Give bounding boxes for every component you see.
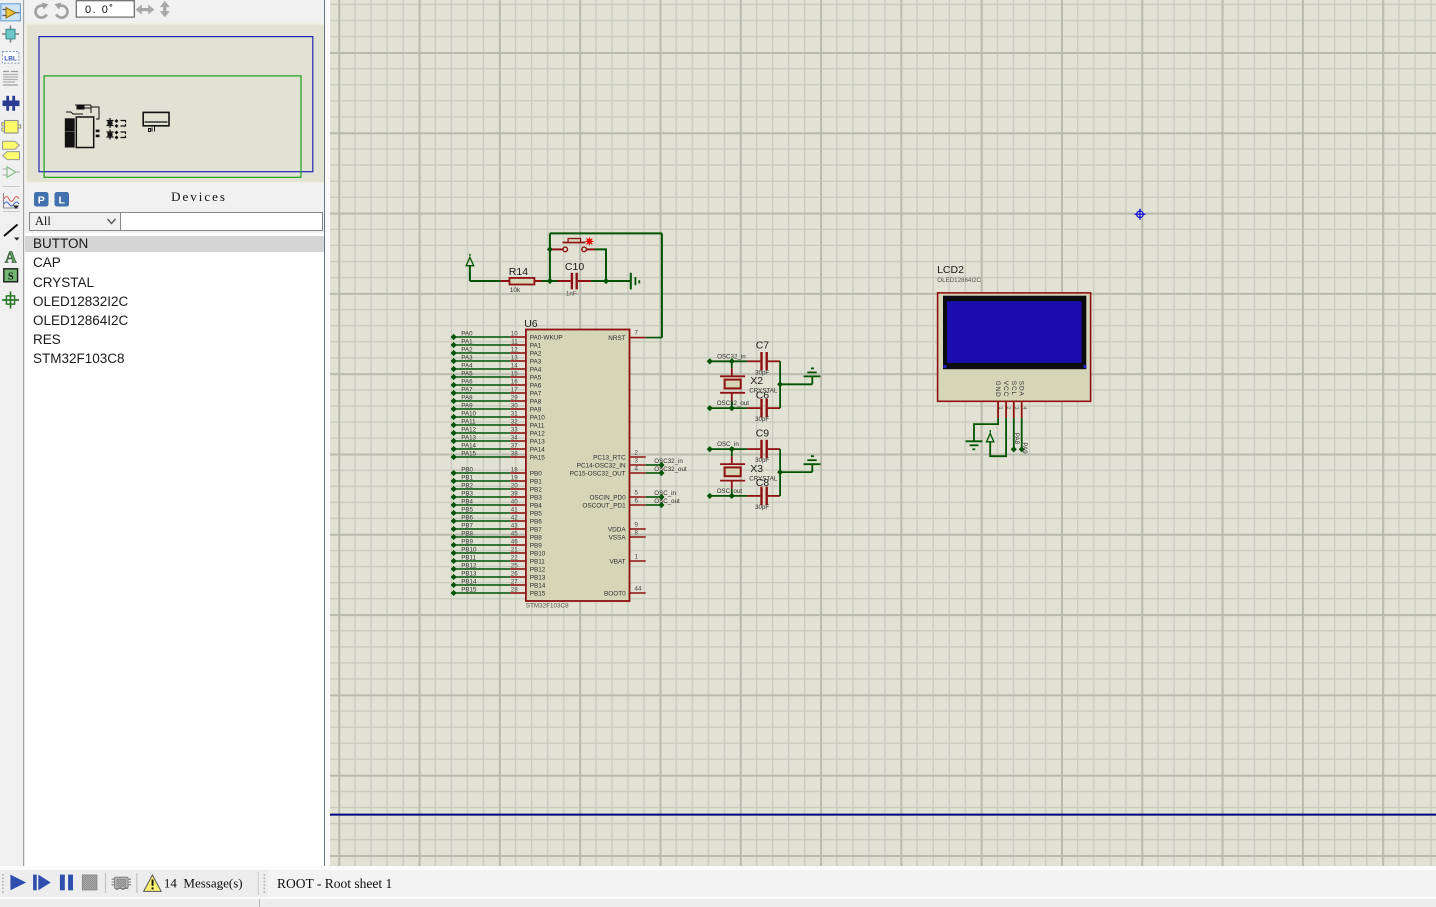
svg-text:OSC_in: OSC_in bbox=[717, 441, 739, 448]
label X2 bbox=[750, 375, 763, 387]
capacitor C7 bbox=[747, 352, 780, 371]
svg-text:PA11: PA11 bbox=[461, 418, 476, 425]
svg-text:NRST: NRST bbox=[608, 335, 625, 342]
svg-text:PA9: PA9 bbox=[461, 402, 473, 409]
pin PB14 wire bbox=[450, 578, 545, 589]
wire vertical node A to button branch bbox=[548, 233, 550, 281]
pin PB12 wire bbox=[450, 562, 545, 573]
svg-text:14: 14 bbox=[510, 362, 517, 369]
svg-text:PB2: PB2 bbox=[461, 482, 473, 489]
svg-text:34: 34 bbox=[510, 434, 517, 441]
pin PA11 wire bbox=[450, 418, 544, 429]
svg-text:PA12: PA12 bbox=[529, 430, 545, 437]
wire C9 to rail bbox=[779, 449, 781, 472]
net label OSC32_in bbox=[717, 353, 746, 360]
pin PA15 wire bbox=[450, 450, 545, 461]
net label OSC_in bbox=[717, 441, 739, 448]
svg-text:C7: C7 bbox=[755, 340, 769, 352]
pin OSCIN_PD0 5 bbox=[589, 489, 676, 501]
svg-text:PB0: PB0 bbox=[461, 466, 473, 473]
svg-text:0. 0˚: 0. 0˚ bbox=[85, 4, 115, 16]
svg-text:14 Message(s): 14 Message(s) bbox=[164, 875, 243, 890]
display LCD2 body bbox=[937, 293, 1090, 401]
junction crystal top bbox=[728, 358, 734, 364]
label R14 bbox=[508, 266, 527, 278]
svg-text:SDA: SDA bbox=[1017, 381, 1024, 397]
pin PB7 wire bbox=[450, 522, 542, 533]
pin PB10 wire bbox=[450, 546, 545, 557]
label X3 bbox=[750, 463, 763, 475]
svg-text:8: 8 bbox=[634, 529, 638, 536]
svg-text:30pF: 30pF bbox=[755, 416, 769, 423]
svg-text:PB10: PB10 bbox=[461, 546, 477, 553]
svg-text:PA6: PA6 bbox=[529, 382, 541, 389]
op chip U6 body bbox=[525, 330, 629, 602]
svg-text:OSC_in: OSC_in bbox=[654, 490, 676, 497]
svg-text:PA5: PA5 bbox=[529, 374, 541, 381]
svg-text:31: 31 bbox=[510, 410, 517, 417]
svg-text:PA6: PA6 bbox=[461, 378, 473, 385]
svg-text:PA15: PA15 bbox=[529, 454, 545, 461]
svg-text:PB8: PB8 bbox=[461, 530, 473, 537]
svg-text:16: 16 bbox=[510, 378, 517, 385]
svg-text:PA13: PA13 bbox=[461, 434, 476, 441]
svg-text:PB5: PB5 bbox=[461, 506, 473, 513]
svg-text:PA4: PA4 bbox=[529, 366, 541, 373]
net label PA8 bbox=[1013, 433, 1020, 445]
svg-text:C6: C6 bbox=[755, 389, 769, 401]
wire R14 to node A bbox=[541, 280, 549, 282]
crystal X2 bbox=[720, 361, 745, 408]
svg-text:P: P bbox=[38, 194, 45, 206]
LCD pin SCL (3) bbox=[1009, 381, 1018, 418]
svg-text:PC13_RTC: PC13_RTC bbox=[593, 454, 626, 461]
svg-text:30pF: 30pF bbox=[755, 504, 769, 511]
junction crystal bottom bbox=[728, 405, 734, 411]
wire LCD GND bbox=[974, 418, 998, 441]
pin PA3 wire bbox=[450, 354, 541, 365]
pin PB4 wire bbox=[450, 498, 542, 509]
pin PB0 wire bbox=[450, 466, 542, 477]
value 30pF (C6) bbox=[755, 416, 769, 423]
svg-text:PA11: PA11 bbox=[529, 422, 544, 429]
pin PB11 wire bbox=[450, 554, 545, 565]
junction crystal bottom bbox=[728, 493, 734, 499]
svg-text:PB15: PB15 bbox=[529, 590, 545, 597]
svg-text:PB4: PB4 bbox=[461, 498, 473, 505]
svg-text:PA10: PA10 bbox=[529, 414, 545, 421]
junction button left bbox=[546, 246, 552, 252]
value CRYSTAL (X2) bbox=[749, 388, 778, 395]
svg-text:37: 37 bbox=[510, 442, 517, 449]
pin PB13 wire bbox=[450, 570, 545, 581]
pin PB1 wire bbox=[450, 474, 542, 485]
svg-text:PB12: PB12 bbox=[529, 566, 545, 573]
wire C6 to rail bbox=[779, 384, 781, 408]
pin PA12 wire bbox=[450, 426, 545, 437]
wire C7 to rail bbox=[779, 361, 781, 384]
svg-text:PA10: PA10 bbox=[461, 410, 476, 417]
LCD pin SDA (4) bbox=[1017, 381, 1026, 418]
svg-text:S: S bbox=[8, 272, 14, 283]
svg-text:1: 1 bbox=[634, 553, 638, 560]
svg-text:PA4: PA4 bbox=[461, 362, 473, 369]
svg-text:30: 30 bbox=[510, 402, 517, 409]
wire right drop to NRST bbox=[660, 233, 662, 337]
pin BOOT0 44 bbox=[604, 585, 646, 597]
svg-text:33: 33 bbox=[510, 426, 517, 433]
net label OSC_out bbox=[716, 488, 742, 495]
label C10 bbox=[564, 261, 583, 273]
resistor R14 bbox=[500, 278, 541, 285]
svg-text:22: 22 bbox=[510, 554, 517, 561]
wire LCD SCL bbox=[1010, 418, 1016, 452]
svg-text:4: 4 bbox=[634, 465, 638, 472]
svg-text:X2: X2 bbox=[750, 375, 763, 387]
svg-text:PA1: PA1 bbox=[529, 342, 541, 349]
wire LCD SDA bbox=[1018, 418, 1024, 452]
svg-text:PB5: PB5 bbox=[529, 510, 542, 517]
wire C8 to rail bbox=[779, 472, 781, 496]
svg-text:PA7: PA7 bbox=[529, 390, 541, 397]
svg-text:PA8: PA8 bbox=[529, 398, 541, 405]
svg-text:12: 12 bbox=[510, 346, 517, 353]
svg-text:PA13: PA13 bbox=[529, 438, 545, 445]
value 1nF bbox=[565, 291, 576, 298]
svg-text:45: 45 bbox=[510, 530, 517, 537]
pin PA10 wire bbox=[450, 410, 545, 421]
svg-text:PB6: PB6 bbox=[461, 514, 473, 521]
svg-text:PA12: PA12 bbox=[461, 426, 476, 433]
value CRYSTAL (X3) bbox=[749, 476, 778, 483]
svg-text:PB11: PB11 bbox=[461, 554, 476, 561]
svg-text:VCC: VCC bbox=[1002, 381, 1009, 397]
svg-text:28: 28 bbox=[510, 586, 517, 593]
pin PA0 wire bbox=[450, 330, 562, 341]
pin PA6 wire bbox=[450, 378, 541, 389]
svg-text:OSC_out: OSC_out bbox=[654, 498, 680, 505]
pin PB6 wire bbox=[450, 514, 542, 525]
pin VSSA 8 bbox=[608, 529, 645, 541]
svg-text:15: 15 bbox=[510, 370, 517, 377]
pin NRST 7 bbox=[608, 329, 662, 342]
svg-text:29: 29 bbox=[510, 394, 517, 401]
value OLED12864I2C bbox=[937, 277, 981, 284]
sheet border line bbox=[330, 814, 1436, 816]
pin PB9 wire bbox=[450, 538, 542, 549]
svg-text:26: 26 bbox=[510, 570, 517, 577]
value 30pF (C8) bbox=[755, 504, 769, 511]
button (pushbutton) bbox=[552, 239, 595, 252]
svg-text:PB12: PB12 bbox=[461, 562, 477, 569]
svg-text:10k: 10k bbox=[509, 287, 520, 294]
svg-text:VSSA: VSSA bbox=[608, 534, 626, 541]
svg-text:PA2: PA2 bbox=[461, 346, 473, 353]
junction node B bbox=[603, 278, 609, 284]
svg-text:U6: U6 bbox=[524, 318, 538, 330]
wire power to R14 bbox=[469, 280, 500, 282]
wire node B to ground bbox=[606, 280, 631, 282]
ground (LCD) bbox=[965, 441, 982, 449]
svg-text:43: 43 bbox=[510, 522, 517, 529]
wire net OSC32_out bbox=[706, 405, 747, 411]
svg-text:PA9: PA9 bbox=[529, 406, 541, 413]
junction crystal top bbox=[728, 446, 734, 452]
svg-text:C9: C9 bbox=[755, 427, 769, 439]
label C7 bbox=[755, 340, 769, 352]
svg-text:5: 5 bbox=[634, 489, 638, 496]
svg-text:42: 42 bbox=[510, 514, 517, 521]
pin PA2 wire bbox=[450, 346, 541, 357]
svg-text:L: L bbox=[58, 194, 65, 206]
svg-text:PA8: PA8 bbox=[1013, 433, 1020, 445]
svg-text:39: 39 bbox=[510, 490, 517, 497]
svg-text:PB6: PB6 bbox=[529, 518, 542, 525]
pin OSCOUT_PD1 6 bbox=[582, 497, 680, 509]
svg-text:41: 41 bbox=[510, 506, 517, 513]
svg-text:PB10: PB10 bbox=[529, 550, 545, 557]
svg-text:6: 6 bbox=[634, 497, 638, 504]
svg-text:PB9: PB9 bbox=[461, 538, 473, 545]
capacitor C10 bbox=[557, 273, 591, 290]
net label PA9 bbox=[1021, 442, 1028, 454]
svg-text:PA15: PA15 bbox=[461, 450, 476, 457]
value 30pF (C9) bbox=[755, 457, 769, 464]
svg-text:PA14: PA14 bbox=[529, 446, 545, 453]
svg-text:C8: C8 bbox=[755, 477, 769, 489]
svg-text:46: 46 bbox=[510, 538, 517, 545]
svg-text:PB4: PB4 bbox=[529, 502, 542, 509]
svg-text:PA3: PA3 bbox=[529, 358, 541, 365]
LCD pin GND (1) bbox=[994, 381, 1003, 418]
label U6 bbox=[524, 318, 538, 330]
pin PB8 wire bbox=[450, 530, 542, 541]
pin PB5 wire bbox=[450, 506, 542, 517]
svg-text:PB2: PB2 bbox=[529, 486, 542, 493]
label C9 bbox=[755, 427, 769, 439]
capacitor C6 bbox=[747, 399, 780, 418]
svg-text:10: 10 bbox=[510, 330, 517, 337]
wire C10 to node B bbox=[591, 280, 606, 282]
origin marker cursor bbox=[1134, 209, 1145, 220]
ground (X3 load) bbox=[803, 456, 820, 464]
wire button right branch bbox=[595, 249, 606, 281]
svg-text:25: 25 bbox=[510, 562, 517, 569]
ground (reset, rotated) bbox=[630, 273, 639, 290]
svg-text:PB13: PB13 bbox=[461, 570, 477, 577]
svg-text:32: 32 bbox=[510, 418, 517, 425]
junction rail mid bbox=[777, 469, 783, 475]
capacitor C9 bbox=[747, 440, 780, 459]
pin VDDA 9 bbox=[607, 521, 645, 533]
label C8 bbox=[755, 477, 769, 489]
value STM32F103C8 bbox=[525, 602, 568, 609]
svg-text:4: 4 bbox=[1020, 407, 1026, 410]
crystal X3 bbox=[720, 449, 745, 496]
LCD pin VCC (2) bbox=[1002, 381, 1011, 418]
svg-text:OSCIN_PD0: OSCIN_PD0 bbox=[589, 494, 626, 501]
svg-text:PA14: PA14 bbox=[461, 442, 476, 449]
svg-text:7: 7 bbox=[634, 329, 638, 336]
pin PA5 wire bbox=[450, 370, 541, 381]
wire top run bbox=[549, 232, 661, 234]
svg-text:PA9: PA9 bbox=[1021, 442, 1028, 454]
pin PB3 wire bbox=[450, 490, 542, 501]
svg-text:BOOT0: BOOT0 bbox=[604, 590, 626, 597]
svg-text:OSC_out: OSC_out bbox=[716, 488, 742, 495]
svg-text:PA0: PA0 bbox=[461, 330, 473, 337]
svg-text:PA7: PA7 bbox=[461, 386, 473, 393]
svg-text:LCD2: LCD2 bbox=[937, 264, 964, 276]
svg-text:R14: R14 bbox=[508, 266, 527, 278]
svg-text:11: 11 bbox=[511, 338, 518, 345]
svg-text:1: 1 bbox=[997, 407, 1003, 410]
svg-text:3: 3 bbox=[1012, 407, 1018, 410]
wire net OSC_in bbox=[706, 446, 747, 452]
pin PA9 wire bbox=[450, 402, 541, 413]
svg-text:ROOT - Root sheet 1: ROOT - Root sheet 1 bbox=[277, 876, 392, 891]
value 10k bbox=[509, 287, 520, 294]
svg-text:44: 44 bbox=[634, 585, 641, 592]
svg-text:PA3: PA3 bbox=[461, 354, 473, 361]
svg-text:PA8: PA8 bbox=[461, 394, 473, 401]
pin PC14-OSC32_IN 3 bbox=[576, 457, 683, 469]
svg-text:LBL: LBL bbox=[4, 55, 17, 62]
svg-text:18: 18 bbox=[510, 466, 517, 473]
svg-text:3: 3 bbox=[634, 457, 638, 464]
pin PC13_RTC 2 bbox=[593, 449, 646, 461]
svg-text:2: 2 bbox=[634, 449, 638, 456]
svg-text:40: 40 bbox=[510, 498, 517, 505]
svg-text:PB9: PB9 bbox=[529, 542, 542, 549]
svg-text:A: A bbox=[5, 248, 17, 267]
svg-text:PC14-OSC32_IN: PC14-OSC32_IN bbox=[576, 462, 625, 469]
svg-text:17: 17 bbox=[510, 386, 517, 393]
svg-text:21: 21 bbox=[510, 546, 517, 553]
pin VBAT 1 bbox=[609, 553, 645, 565]
wire rail to ground bbox=[780, 377, 812, 384]
svg-text:PB3: PB3 bbox=[461, 490, 473, 497]
svg-text:PA2: PA2 bbox=[529, 350, 541, 357]
pin PA14 wire bbox=[450, 442, 545, 453]
svg-text:PB8: PB8 bbox=[529, 534, 542, 541]
svg-text:OSC32_out: OSC32_out bbox=[654, 466, 687, 473]
power terminal (LCD VCC) bbox=[986, 430, 993, 442]
svg-text:OSCOUT_PD1: OSCOUT_PD1 bbox=[582, 502, 626, 509]
svg-text:PB3: PB3 bbox=[529, 494, 542, 501]
svg-text:C10: C10 bbox=[564, 261, 583, 273]
pin PB2 wire bbox=[450, 482, 542, 493]
svg-text:19: 19 bbox=[510, 474, 517, 481]
svg-text:9: 9 bbox=[634, 521, 638, 528]
svg-text:PB7: PB7 bbox=[461, 522, 473, 529]
svg-text:PB0: PB0 bbox=[529, 470, 542, 477]
pin PB15 wire bbox=[450, 586, 545, 597]
svg-text:PA5: PA5 bbox=[461, 370, 473, 377]
svg-text:PA0-WKUP: PA0-WKUP bbox=[529, 334, 562, 341]
svg-text:PB7: PB7 bbox=[529, 526, 542, 533]
svg-text:GND: GND bbox=[994, 381, 1001, 398]
svg-text:OLED12864I2C: OLED12864I2C bbox=[937, 277, 981, 284]
pin PC15-OSC32_OUT 4 bbox=[569, 465, 686, 477]
svg-text:PB1: PB1 bbox=[461, 474, 473, 481]
svg-text:20: 20 bbox=[510, 482, 517, 489]
button actuator marker (red) bbox=[585, 237, 593, 245]
svg-text:1nF: 1nF bbox=[565, 291, 576, 298]
svg-text:PB14: PB14 bbox=[529, 582, 545, 589]
power terminal (reset pull-up) bbox=[466, 254, 474, 281]
svg-text:27: 27 bbox=[510, 578, 517, 585]
wire node A to C10 bbox=[549, 280, 557, 282]
ground (X2 load) bbox=[803, 368, 820, 376]
net label OSC32_out bbox=[716, 400, 749, 407]
pin PA7 wire bbox=[450, 386, 541, 397]
junction rail mid bbox=[777, 381, 783, 387]
svg-text:PB15: PB15 bbox=[461, 586, 477, 593]
svg-text:PC15-OSC32_OUT: PC15-OSC32_OUT bbox=[569, 470, 625, 477]
value 30pF (C7) bbox=[755, 369, 769, 376]
svg-text:VDDA: VDDA bbox=[607, 526, 625, 533]
svg-text:PB13: PB13 bbox=[529, 574, 545, 581]
svg-text:STM32F103C8: STM32F103C8 bbox=[525, 602, 568, 609]
label C6 bbox=[755, 389, 769, 401]
svg-text:PB1: PB1 bbox=[529, 478, 542, 485]
svg-text:OSC32_in: OSC32_in bbox=[654, 458, 683, 465]
svg-text:PB11: PB11 bbox=[529, 558, 545, 565]
capacitor C8 bbox=[747, 487, 780, 506]
pin PA1 wire bbox=[450, 338, 541, 349]
pin PA8 wire bbox=[450, 394, 541, 405]
svg-text:PB14: PB14 bbox=[461, 578, 477, 585]
label LCD2 bbox=[937, 264, 964, 276]
svg-text:VBAT: VBAT bbox=[609, 558, 625, 565]
svg-text:SCL: SCL bbox=[1009, 381, 1016, 396]
svg-text:X3: X3 bbox=[750, 463, 763, 475]
wire net OSC32_in bbox=[706, 358, 747, 364]
svg-text:13: 13 bbox=[510, 354, 517, 361]
svg-text:OSC32_out: OSC32_out bbox=[716, 400, 749, 407]
wire net OSC_out bbox=[706, 493, 747, 499]
svg-text:38: 38 bbox=[510, 450, 517, 457]
svg-text:2: 2 bbox=[1005, 407, 1011, 410]
svg-text:PA1: PA1 bbox=[461, 338, 473, 345]
pin PA4 wire bbox=[450, 362, 541, 373]
junction node A bbox=[546, 278, 552, 284]
wire rail to ground bbox=[780, 465, 812, 472]
wire LCD VCC bbox=[990, 418, 1006, 456]
pin PA13 wire bbox=[450, 434, 545, 445]
